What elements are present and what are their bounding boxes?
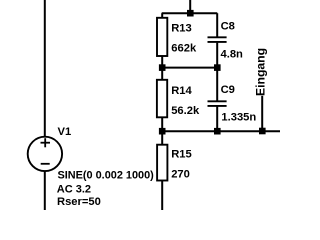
svg-text:Eingang: Eingang	[254, 48, 268, 96]
capacitor C9	[208, 101, 227, 106]
junction: bottom node under Eingang	[259, 128, 266, 135]
svg-text:AC 3.2: AC 3.2	[57, 184, 91, 196]
wire: C8 bottom lead	[216, 43, 218, 68]
junction: bottom node under C9	[214, 128, 221, 135]
wire: R15 top lead	[161, 131, 163, 145]
wire: mid horizontal rail	[162, 67, 217, 69]
svg-text:R15: R15	[171, 149, 192, 161]
resistor R15	[157, 145, 167, 181]
svg-text:C9: C9	[221, 84, 235, 96]
svg-text:Rser=50: Rser=50	[57, 196, 101, 208]
wire: R14 bottom lead	[161, 117, 163, 131]
svg-text:1.335n: 1.335n	[221, 112, 256, 124]
wire: C8 top lead	[216, 13, 218, 36]
junction: left mid node	[159, 64, 166, 71]
svg-text:R14: R14	[171, 85, 192, 97]
svg-text:C8: C8	[221, 21, 235, 33]
junction: left bottom node	[159, 128, 166, 135]
voltage source V1	[28, 137, 62, 171]
svg-text:V1: V1	[58, 126, 72, 138]
resistor R14	[157, 80, 167, 118]
junction: top node	[187, 10, 194, 17]
svg-text:R13: R13	[171, 23, 192, 35]
wire: vertical feed from top edge into V1	[44, 0, 46, 138]
svg-text:270: 270	[171, 169, 190, 181]
wire: R15 bottom lead to bottom edge	[161, 181, 163, 211]
wire: Eingang net stub	[261, 96, 263, 131]
junction: right mid node	[214, 64, 221, 71]
wire: R13 bottom lead	[161, 56, 163, 68]
svg-text:56.2k: 56.2k	[171, 105, 200, 117]
wire: R13 top lead	[161, 13, 163, 18]
wire: R14 top lead	[161, 68, 163, 80]
resistor R13	[157, 18, 167, 56]
wire: top horizontal rail	[162, 12, 218, 14]
wire: from V1 bottom to bottom edge	[44, 170, 46, 211]
wire: C9 bottom lead	[216, 107, 218, 132]
svg-text:SINE(0 0.002 1000): SINE(0 0.002 1000)	[58, 170, 155, 182]
wire: bottom horizontal rail to right edge	[162, 130, 280, 132]
wire: vertical stub from top edge to node junction	[189, 0, 191, 13]
svg-text:4.8n: 4.8n	[221, 48, 244, 60]
svg-text:662k: 662k	[171, 43, 197, 55]
wire: C9 top lead	[216, 68, 218, 101]
capacitor C8	[208, 37, 227, 42]
